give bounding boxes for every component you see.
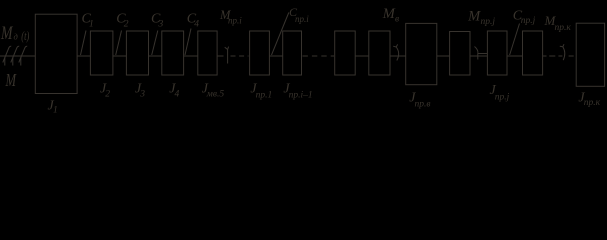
wire: shaft Jpr1 to Jpr.i-1: [269, 55, 282, 57]
wire: shaft Jpr.j to next box: [507, 55, 523, 57]
label M_pr.k: [544, 13, 572, 33]
wire: shaft J3 to J4: [149, 55, 162, 57]
inertia box (unlabeled, after Jpr.j): [523, 31, 543, 75]
label J4: [169, 82, 179, 100]
wire: input shaft from frame to J1: [0, 55, 35, 57]
leader line for stiffness C2: [116, 31, 122, 56]
svg-text:2: 2: [124, 20, 129, 30]
inertia Jmv5 box: [198, 31, 217, 75]
wire: shaft Jpr.v to next box: [437, 55, 450, 57]
wire: shaft to Jpr.v: [390, 55, 406, 57]
ground: flexible support hatching (three slashes with tails): [3, 46, 27, 65]
label Mv: [382, 6, 399, 24]
label M_pr.i: [219, 8, 242, 25]
inertia J2 box: [90, 31, 113, 75]
svg-text:4: 4: [194, 20, 199, 30]
label J1: [48, 99, 58, 116]
wire: dashed continuation line: [303, 55, 335, 57]
svg-text:3: 3: [139, 90, 145, 100]
label Jpr.v: [409, 91, 430, 110]
label Jpr.i-1: [283, 82, 312, 101]
wire: shaft between unlabeled boxes: [355, 55, 369, 57]
svg-text:пр.j: пр.j: [495, 93, 510, 103]
leader line for stiffness Cpr.j: [510, 24, 520, 56]
wire: shaft J1 to J2: [77, 55, 90, 57]
label Md(t) input torque: [0, 24, 29, 44]
label Jpr.j: [490, 83, 510, 103]
svg-text:д: д: [14, 32, 19, 42]
svg-text:пр.i: пр.i: [295, 14, 309, 24]
label C_pr.j: [513, 9, 536, 27]
label Jmv5: [202, 82, 225, 100]
inertia Jpr.v box: [406, 23, 437, 84]
wire: shaft stub then dashed to Jpr.k: [543, 55, 547, 57]
svg-text:M: M: [5, 70, 17, 90]
label C3: [151, 12, 164, 30]
torque arrow M_pr.k: [560, 44, 565, 60]
svg-text:пр.j: пр.j: [481, 17, 496, 27]
label M reaction torque: [5, 70, 17, 90]
svg-text:мв.5: мв.5: [206, 90, 225, 100]
svg-text:пр.i: пр.i: [228, 15, 242, 25]
wire: shaft J2 to J3: [113, 55, 127, 57]
inertia box (unlabeled, before Mv arrow): [369, 31, 390, 75]
label J2: [100, 82, 110, 100]
svg-text:в: в: [395, 15, 399, 25]
svg-text:1: 1: [89, 20, 94, 30]
label C_pr.i: [289, 5, 309, 24]
label J3: [135, 82, 145, 100]
svg-text:4: 4: [175, 90, 180, 100]
svg-text:пр.i–1: пр.i–1: [289, 91, 313, 101]
leader line for stiffness Cpr.i: [272, 13, 289, 56]
svg-text:M: M: [467, 8, 481, 24]
inertia J4 box: [162, 31, 184, 75]
svg-text:пр.к: пр.к: [584, 98, 601, 108]
label C4: [187, 12, 200, 30]
torque arrow M_pr.i: [225, 47, 229, 64]
label Jpr.k: [578, 91, 600, 109]
wire: shaft J4 to J5: [184, 55, 198, 57]
inertia Jpr.i-1 box: [283, 31, 302, 75]
label Jpr1: [250, 82, 272, 101]
label C1: [82, 12, 94, 30]
torque arrow M_pr.j: [475, 47, 488, 60]
inertia J1 (engine) box: [35, 14, 77, 93]
svg-text:(t): (t): [21, 28, 29, 43]
svg-text:пр.в: пр.в: [415, 100, 431, 110]
svg-text:M: M: [382, 6, 396, 22]
inertia Jpr.k box: [576, 23, 604, 86]
leader line for stiffness C1: [81, 31, 87, 56]
svg-text:1: 1: [53, 106, 58, 116]
inertia Jpr1 box: [250, 31, 270, 75]
inertia J3 box: [126, 31, 148, 75]
svg-text:3: 3: [158, 20, 164, 30]
wire: shaft stub after Jmv5: [217, 55, 223, 57]
label M_pr.j: [467, 8, 495, 27]
svg-text:пр.1: пр.1: [256, 91, 273, 101]
torque arrow Mv: [393, 44, 398, 60]
leader line for stiffness C3: [152, 31, 158, 56]
wire: shaft to Jpr.j: [470, 55, 487, 57]
wire: dashed continuation line: [231, 55, 249, 57]
inertia box (unlabeled, right of Jpr.v): [450, 32, 470, 76]
inertia Jpr.j box: [487, 31, 507, 75]
svg-text:пр.j: пр.j: [521, 16, 536, 26]
leader line for stiffness C4: [185, 29, 191, 56]
svg-text:пр.к: пр.к: [555, 23, 572, 33]
svg-text:2: 2: [105, 90, 110, 100]
svg-text:M: M: [0, 24, 13, 44]
inertia box (unlabeled, left of Jpr.v group): [335, 31, 356, 75]
label C2: [116, 12, 129, 30]
